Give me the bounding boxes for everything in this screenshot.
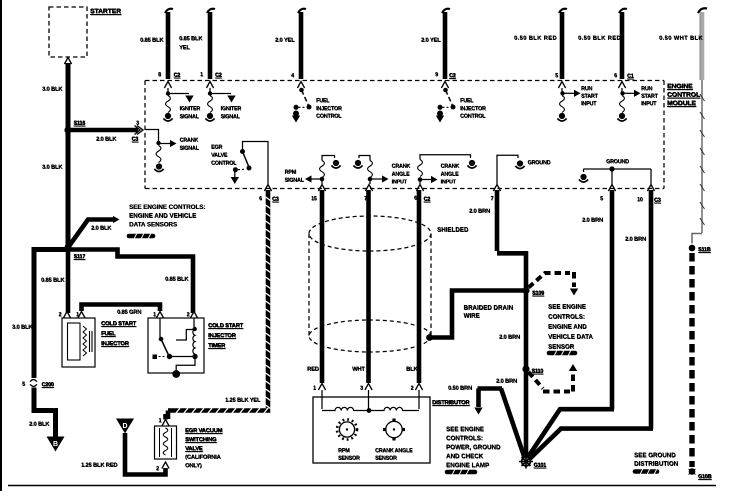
connector C200 (22, 380, 54, 388)
node S110 (522, 365, 543, 374)
svg-text:TIMER: TIMER (208, 343, 226, 349)
pin 9 C2 (435, 72, 456, 79)
svg-text:EGR VACUUM: EGR VACUUM (185, 428, 223, 434)
svg-text:0.50 WHT BLK: 0.50 WHT BLK (659, 36, 703, 42)
svg-text:C200: C200 (42, 382, 54, 388)
wire feed 0.50 BLK RED (right) (619, 9, 627, 79)
ECM pin arrow under wire 5 (558, 82, 565, 89)
svg-text:INJECTOR: INJECTOR (101, 341, 130, 347)
svg-text:15: 15 (311, 196, 317, 202)
label CRANK ANGLE INPUT 2 (441, 164, 460, 186)
svg-text:2: 2 (411, 386, 414, 392)
svg-text:2: 2 (187, 312, 190, 318)
wire S117 left branch down to C200 (34, 250, 68, 379)
wire feed 2.0 YEL (left) (298, 9, 306, 79)
ECM pin arrow under wire 6 (618, 82, 625, 89)
svg-text:STARTER: STARTER (90, 8, 121, 15)
label CRANK ANGLE INPUT 1 (392, 164, 411, 186)
svg-text:0.50 BLK RED: 0.50 BLK RED (514, 36, 557, 42)
starter dashed box (49, 7, 87, 57)
svg-text:POWER, GROUND: POWER, GROUND (446, 444, 501, 451)
svg-text:VALVE: VALVE (185, 446, 203, 452)
svg-text:ANGLE: ANGLE (392, 172, 410, 178)
svg-text:0.85 BLK: 0.85 BLK (140, 38, 164, 44)
svg-text:D: D (122, 423, 127, 430)
EGR valve coil interior (160, 428, 172, 457)
svg-text:SIGNAL: SIGNAL (180, 114, 200, 120)
wire 1.25 BLK YEL hatched from ECM pin 6 C3 to EGR valve (168, 185, 272, 420)
svg-text:WIRE: WIRE (464, 313, 480, 320)
ECM pin arrow under wire 3 (297, 82, 304, 89)
svg-text:CRANK: CRANK (180, 138, 199, 144)
bottom separator rule (8, 485, 716, 487)
svg-text:CRANK: CRANK (392, 164, 411, 170)
svg-text:(CALIFORNIA: (CALIFORNIA (185, 455, 221, 461)
distributor pins 1 3 2 (313, 384, 423, 392)
EGR vacuum switching valve box (155, 426, 177, 459)
pin 6 C1 (614, 73, 634, 80)
svg-text:1: 1 (159, 418, 162, 424)
label BRAIDED DRAIN WIRE (464, 305, 514, 320)
wire EGR pin2 to connector D 1.25 BLK RED (125, 433, 166, 475)
pin 3 C3 entry chevron (132, 121, 144, 143)
label EGR VACUUM SWITCHING VALVE (CALIFORNIA ONLY) (185, 428, 223, 469)
svg-text:IGNITER: IGNITER (221, 106, 242, 112)
node S117 (64, 244, 85, 260)
ECM dashed border box (145, 81, 664, 189)
label COLD START FUEL INJECTOR (101, 321, 137, 347)
scribbled word blob (447, 469, 475, 475)
svg-text:SENSOR: SENSOR (548, 344, 575, 351)
run start input circuit 2 (617, 88, 640, 121)
svg-text:C2: C2 (424, 197, 431, 203)
cold start fuel injector box (62, 318, 95, 367)
node S11B (689, 245, 711, 253)
svg-text:5: 5 (22, 382, 25, 388)
wire 0.50 WHT BLK right edge run (692, 80, 705, 244)
distributor internal winding (322, 390, 419, 413)
svg-text:INPUT: INPUT (641, 101, 657, 107)
svg-text:RUN: RUN (581, 86, 592, 92)
braided drain wire dot (426, 334, 433, 341)
svg-text:C3: C3 (132, 137, 139, 143)
svg-text:2.0 BRN: 2.0 BRN (582, 218, 603, 224)
igniter signal circuit 1 (163, 88, 193, 121)
label EGR VALVE CONTROL (211, 145, 237, 167)
svg-text:0.85 GRN: 0.85 GRN (117, 310, 141, 316)
svg-text:ONLY): ONLY) (185, 463, 202, 469)
note SEE ENGINE CONTROLS POWER GROUND AND CHECK ENGINE LAMP (446, 426, 501, 469)
node S116 (64, 121, 85, 134)
svg-text:SIGNAL: SIGNAL (221, 114, 241, 120)
wire braided drain to S109 (430, 291, 524, 338)
svg-text:VEHICLE DATA: VEHICLE DATA (548, 334, 593, 341)
svg-text:SIGNAL: SIGNAL (180, 146, 200, 152)
wire feed 0.50 WHT BLK (grey) (698, 8, 707, 80)
node S109 (522, 287, 544, 297)
svg-text:2.0 BLK: 2.0 BLK (96, 137, 117, 143)
wire S109 to S110 2.0 BRN (524, 291, 529, 370)
wire ECM pin10 to G101 2.0 BRN (529, 190, 653, 460)
svg-text:CONTROL: CONTROL (460, 114, 486, 120)
label IGNITER SIGNAL 2 (221, 106, 242, 120)
label CRANK SIGNAL (180, 138, 200, 152)
crank signal circuit (146, 130, 177, 172)
shielded cable cylinder (309, 216, 431, 352)
crank angle sensor wheel (383, 419, 405, 441)
label RPM SENSOR (338, 448, 360, 462)
svg-text:5: 5 (555, 73, 558, 79)
svg-text:1.25 BLK RED: 1.25 BLK RED (81, 463, 117, 469)
svg-text:SEE GROUND: SEE GROUND (634, 452, 676, 459)
wire feed 0.50 BLK RED (left) (559, 9, 567, 79)
svg-text:10: 10 (637, 197, 643, 203)
svg-text:C2: C2 (174, 73, 181, 79)
igniter signal circuit 2 (205, 88, 235, 121)
svg-text:7: 7 (491, 196, 494, 202)
svg-text:CRANK: CRANK (441, 164, 460, 170)
svg-text:RPM: RPM (285, 170, 297, 176)
svg-text:SENSOR: SENSOR (338, 456, 360, 462)
label 0.85 BLK YEL (179, 36, 203, 51)
wire S11B to G10B heavy dashed (689, 253, 694, 467)
svg-text:2.0 YEL: 2.0 YEL (275, 38, 295, 44)
svg-text:9: 9 (435, 72, 438, 78)
svg-text:CONTROL: CONTROL (211, 161, 237, 167)
svg-text:2.0 BRN: 2.0 BRN (499, 335, 520, 341)
wire S117 down to injector pin2 0.85 BLK (66, 248, 71, 314)
timer interior switch and coil (153, 318, 198, 378)
svg-text:START: START (581, 94, 598, 100)
note SEE ENGINE CONTROLS (left) (129, 204, 205, 229)
rpm signal circuit (pin 15) (305, 156, 341, 192)
svg-text:G10B: G10B (698, 474, 712, 480)
crank angle input circuit (pin 6 C2 BLK) (416, 155, 476, 191)
svg-text:C3: C3 (654, 198, 661, 204)
wire WHT sensor lead (366, 190, 371, 383)
svg-text:FUEL: FUEL (316, 98, 330, 104)
svg-text:ANGLE: ANGLE (441, 172, 459, 178)
svg-text:C1: C1 (627, 74, 634, 80)
fuel injector control driver 1 (292, 88, 312, 123)
svg-text:MODULE: MODULE (667, 100, 696, 107)
svg-text:2.0 BLK: 2.0 BLK (91, 226, 112, 232)
svg-text:CONTROL: CONTROL (316, 114, 342, 120)
label RUN START INPUT 2 (641, 86, 658, 107)
svg-text:AND CHECK: AND CHECK (446, 453, 484, 460)
label RPM SIGNAL (285, 170, 305, 184)
fuel injector control driver 2 (436, 88, 456, 123)
wire S116 to ECM pin3 2.0 BLK (68, 126, 140, 135)
svg-text:INPUT: INPUT (392, 179, 408, 185)
svg-text:0.50 BLK RED: 0.50 BLK RED (578, 36, 621, 42)
svg-text:RED: RED (307, 367, 319, 373)
ECM pin arrow under wire 2 (206, 82, 213, 89)
scribbled word blob (129, 233, 153, 239)
starter pin chevron (64, 58, 71, 65)
svg-text:2: 2 (156, 466, 159, 472)
svg-text:VALVE: VALVE (211, 153, 228, 159)
label CRANK ANGLE SENSOR (375, 448, 413, 462)
svg-text:2.0 BRN: 2.0 BRN (625, 237, 646, 243)
svg-text:COLD START: COLD START (208, 323, 244, 329)
svg-text:SEE ENGINE: SEE ENGINE (446, 426, 484, 433)
RPM sensor toothed wheel (337, 420, 357, 440)
svg-text:SEE ENGINE CONTROLS:: SEE ENGINE CONTROLS: (129, 204, 205, 211)
svg-text:RUN: RUN (641, 86, 652, 92)
svg-text:0.85 BLK: 0.85 BLK (165, 277, 189, 283)
wire ECM pin5 to G101 2.0 BRN (528, 190, 614, 457)
cold start injector timer pins 1 2 (153, 312, 198, 319)
svg-text:2.0 BRN: 2.0 BRN (496, 379, 517, 385)
svg-text:4: 4 (291, 73, 294, 79)
pin 8 C2 (158, 72, 180, 79)
svg-text:INJECTOR: INJECTOR (316, 106, 342, 112)
svg-text:RPM: RPM (338, 448, 350, 454)
svg-text:3: 3 (360, 386, 363, 392)
svg-text:SENSOR: SENSOR (375, 456, 397, 462)
svg-text:INPUT: INPUT (581, 101, 597, 107)
scribbled word blob (549, 350, 575, 356)
note SEE ENGINE CONTROLS ENGINE AND VEHICLE DATA SENSOR (548, 304, 593, 351)
svg-text:2.0 BLK: 2.0 BLK (29, 422, 50, 428)
svg-text:S116: S116 (74, 121, 86, 127)
svg-text:INJECTOR: INJECTOR (208, 333, 237, 339)
svg-text:BLK: BLK (406, 367, 418, 373)
run start input circuit 1 (557, 88, 580, 121)
injector coil interior (68, 323, 93, 360)
EGR valve pin 1 (159, 414, 170, 426)
EGR valve pin 2 (156, 462, 169, 472)
svg-text:BRAIDED DRAIN: BRAIDED DRAIN (464, 305, 514, 312)
svg-text:EGR: EGR (211, 145, 222, 151)
svg-text:S11B: S11B (698, 247, 711, 253)
svg-text:1: 1 (76, 312, 79, 318)
ECM pin arrow under wire 1 (164, 82, 171, 89)
svg-text:6: 6 (414, 196, 417, 202)
svg-text:ENGINE LAMP: ENGINE LAMP (446, 462, 489, 469)
off-page connector D triangle (116, 419, 134, 434)
wire RED sensor lead (320, 190, 325, 383)
svg-text:1.25 BLK YEL: 1.25 BLK YEL (225, 398, 261, 404)
label FUEL INJECTOR CONTROL 1 (316, 98, 342, 120)
wire injector pin1 to timer pin1 0.85 GRN (82, 305, 161, 312)
svg-text:S110: S110 (532, 369, 544, 375)
svg-text:SIGNAL: SIGNAL (285, 178, 305, 184)
wire 0.50 BRN branch with down arrow to distributor (474, 389, 502, 415)
svg-text:YEL: YEL (179, 45, 190, 51)
wire C200 to connector B 2.0 BLK (34, 388, 56, 439)
wire feed 2.0 YEL (right) (442, 9, 450, 79)
svg-text:0.85 BLK: 0.85 BLK (41, 278, 65, 284)
label COLD START INJECTOR TIMER (208, 323, 244, 349)
wire battery feed 0.85 BLK (165, 9, 173, 79)
svg-text:FUEL: FUEL (101, 331, 116, 337)
note SEE GROUND DISTRIBUTION (634, 452, 679, 468)
svg-text:2: 2 (59, 312, 62, 318)
page left border line (0, 0, 2, 491)
svg-text:SHIELDED: SHIELDED (437, 227, 469, 234)
svg-text:GROUND: GROUND (606, 159, 629, 165)
svg-text:START: START (641, 94, 658, 100)
svg-text:ENGINE: ENGINE (667, 83, 693, 90)
wire S117 up-right arrow 2.0 BLK (68, 216, 120, 248)
ground circuit (pin 7 right) (493, 155, 524, 191)
svg-text:6: 6 (259, 196, 262, 202)
dashed reference arrow from S110 (up) (529, 364, 578, 392)
svg-text:ENGINE AND VEHICLE: ENGINE AND VEHICLE (129, 213, 196, 220)
svg-text:3: 3 (136, 121, 139, 127)
ECM pin arrow under wire 4 (441, 82, 448, 89)
wire S117 right branch to timer pin2 0.85 BLK (68, 250, 193, 314)
ECM bottom pin labels (259, 196, 661, 204)
svg-text:GROUND: GROUND (528, 160, 551, 166)
wire BLK sensor lead (417, 190, 422, 383)
svg-text:INJECTOR: INJECTOR (460, 106, 486, 112)
scribbled word blob (635, 469, 657, 475)
svg-text:C3: C3 (272, 197, 279, 203)
svg-text:G101: G101 (534, 463, 547, 469)
ECM label ENGINE CONTROL MODULE (667, 83, 700, 107)
svg-text:C2: C2 (449, 73, 456, 79)
svg-text:CONTROL: CONTROL (667, 92, 700, 99)
crank angle input circuit (pin 7 WHT) (353, 156, 388, 192)
svg-text:CONTROLS:: CONTROLS: (548, 314, 585, 321)
wire feed 0.85 BLK YEL (207, 9, 215, 79)
svg-text:3.0 BLK: 3.0 BLK (42, 165, 63, 171)
ground G10B (689, 468, 712, 480)
cold start injector timer box (148, 318, 204, 373)
pin 1 C2 (200, 72, 222, 79)
svg-text:CRANK ANGLE: CRANK ANGLE (375, 448, 413, 454)
label RUN START INPUT 1 (581, 86, 598, 107)
svg-text:1: 1 (200, 72, 203, 78)
svg-text:0.50 BRN: 0.50 BRN (448, 386, 472, 392)
svg-text:DISTRIBUTION: DISTRIBUTION (634, 461, 679, 468)
svg-text:S117: S117 (74, 254, 86, 260)
ground circuit (pins 5 and 10) (579, 166, 655, 191)
svg-text:3.0 BLK: 3.0 BLK (42, 87, 63, 93)
svg-text:1: 1 (153, 312, 156, 318)
svg-text:6: 6 (614, 73, 617, 79)
svg-text:B: B (53, 441, 58, 448)
svg-text:WHT: WHT (352, 367, 365, 373)
wire diagonal 0.50 BRN corner to G101 (501, 389, 525, 460)
svg-text:DATA SENSORS: DATA SENSORS (129, 221, 177, 228)
svg-text:CONTROLS:: CONTROLS: (446, 435, 483, 442)
svg-text:DISTRIBUTOR: DISTRIBUTOR (432, 400, 470, 406)
off-page connector B triangle (47, 437, 65, 452)
ground G101 (519, 455, 546, 469)
svg-text:COLD START: COLD START (101, 321, 137, 327)
label IGNITER SIGNAL 1 (180, 106, 201, 120)
label FUEL INJECTOR CONTROL 2 (460, 98, 486, 120)
svg-text:0.85 BLK: 0.85 BLK (179, 36, 203, 42)
svg-text:INPUT: INPUT (441, 179, 457, 185)
wire ECM pin7 to S109 2.0 BRN (497, 190, 526, 290)
svg-text:8: 8 (158, 72, 161, 78)
EGR valve control driver (231, 142, 268, 185)
svg-text:3.0 BLK: 3.0 BLK (12, 325, 33, 331)
svg-text:FUEL: FUEL (460, 98, 474, 104)
svg-text:ENGINE AND: ENGINE AND (548, 324, 587, 331)
svg-text:S109: S109 (532, 291, 544, 297)
wire S110 to G101 2.0 BRN (524, 369, 529, 458)
svg-text:SWITCHING: SWITCHING (185, 437, 217, 443)
dashed reference arrow from S109 (down) (529, 272, 579, 296)
svg-text:2.0 BRN: 2.0 BRN (469, 209, 490, 215)
svg-text:2.0 YEL: 2.0 YEL (421, 38, 441, 44)
svg-text:IGNITER: IGNITER (180, 106, 201, 112)
svg-text:C2: C2 (215, 73, 222, 79)
svg-text:1: 1 (313, 386, 316, 392)
distributor box (313, 397, 430, 463)
wire starter to S117 3.0 BLK (66, 63, 71, 249)
svg-text:SEE ENGINE: SEE ENGINE (548, 304, 586, 311)
svg-text:5: 5 (600, 196, 603, 202)
cold start fuel injector pins 2 1 (59, 312, 86, 319)
